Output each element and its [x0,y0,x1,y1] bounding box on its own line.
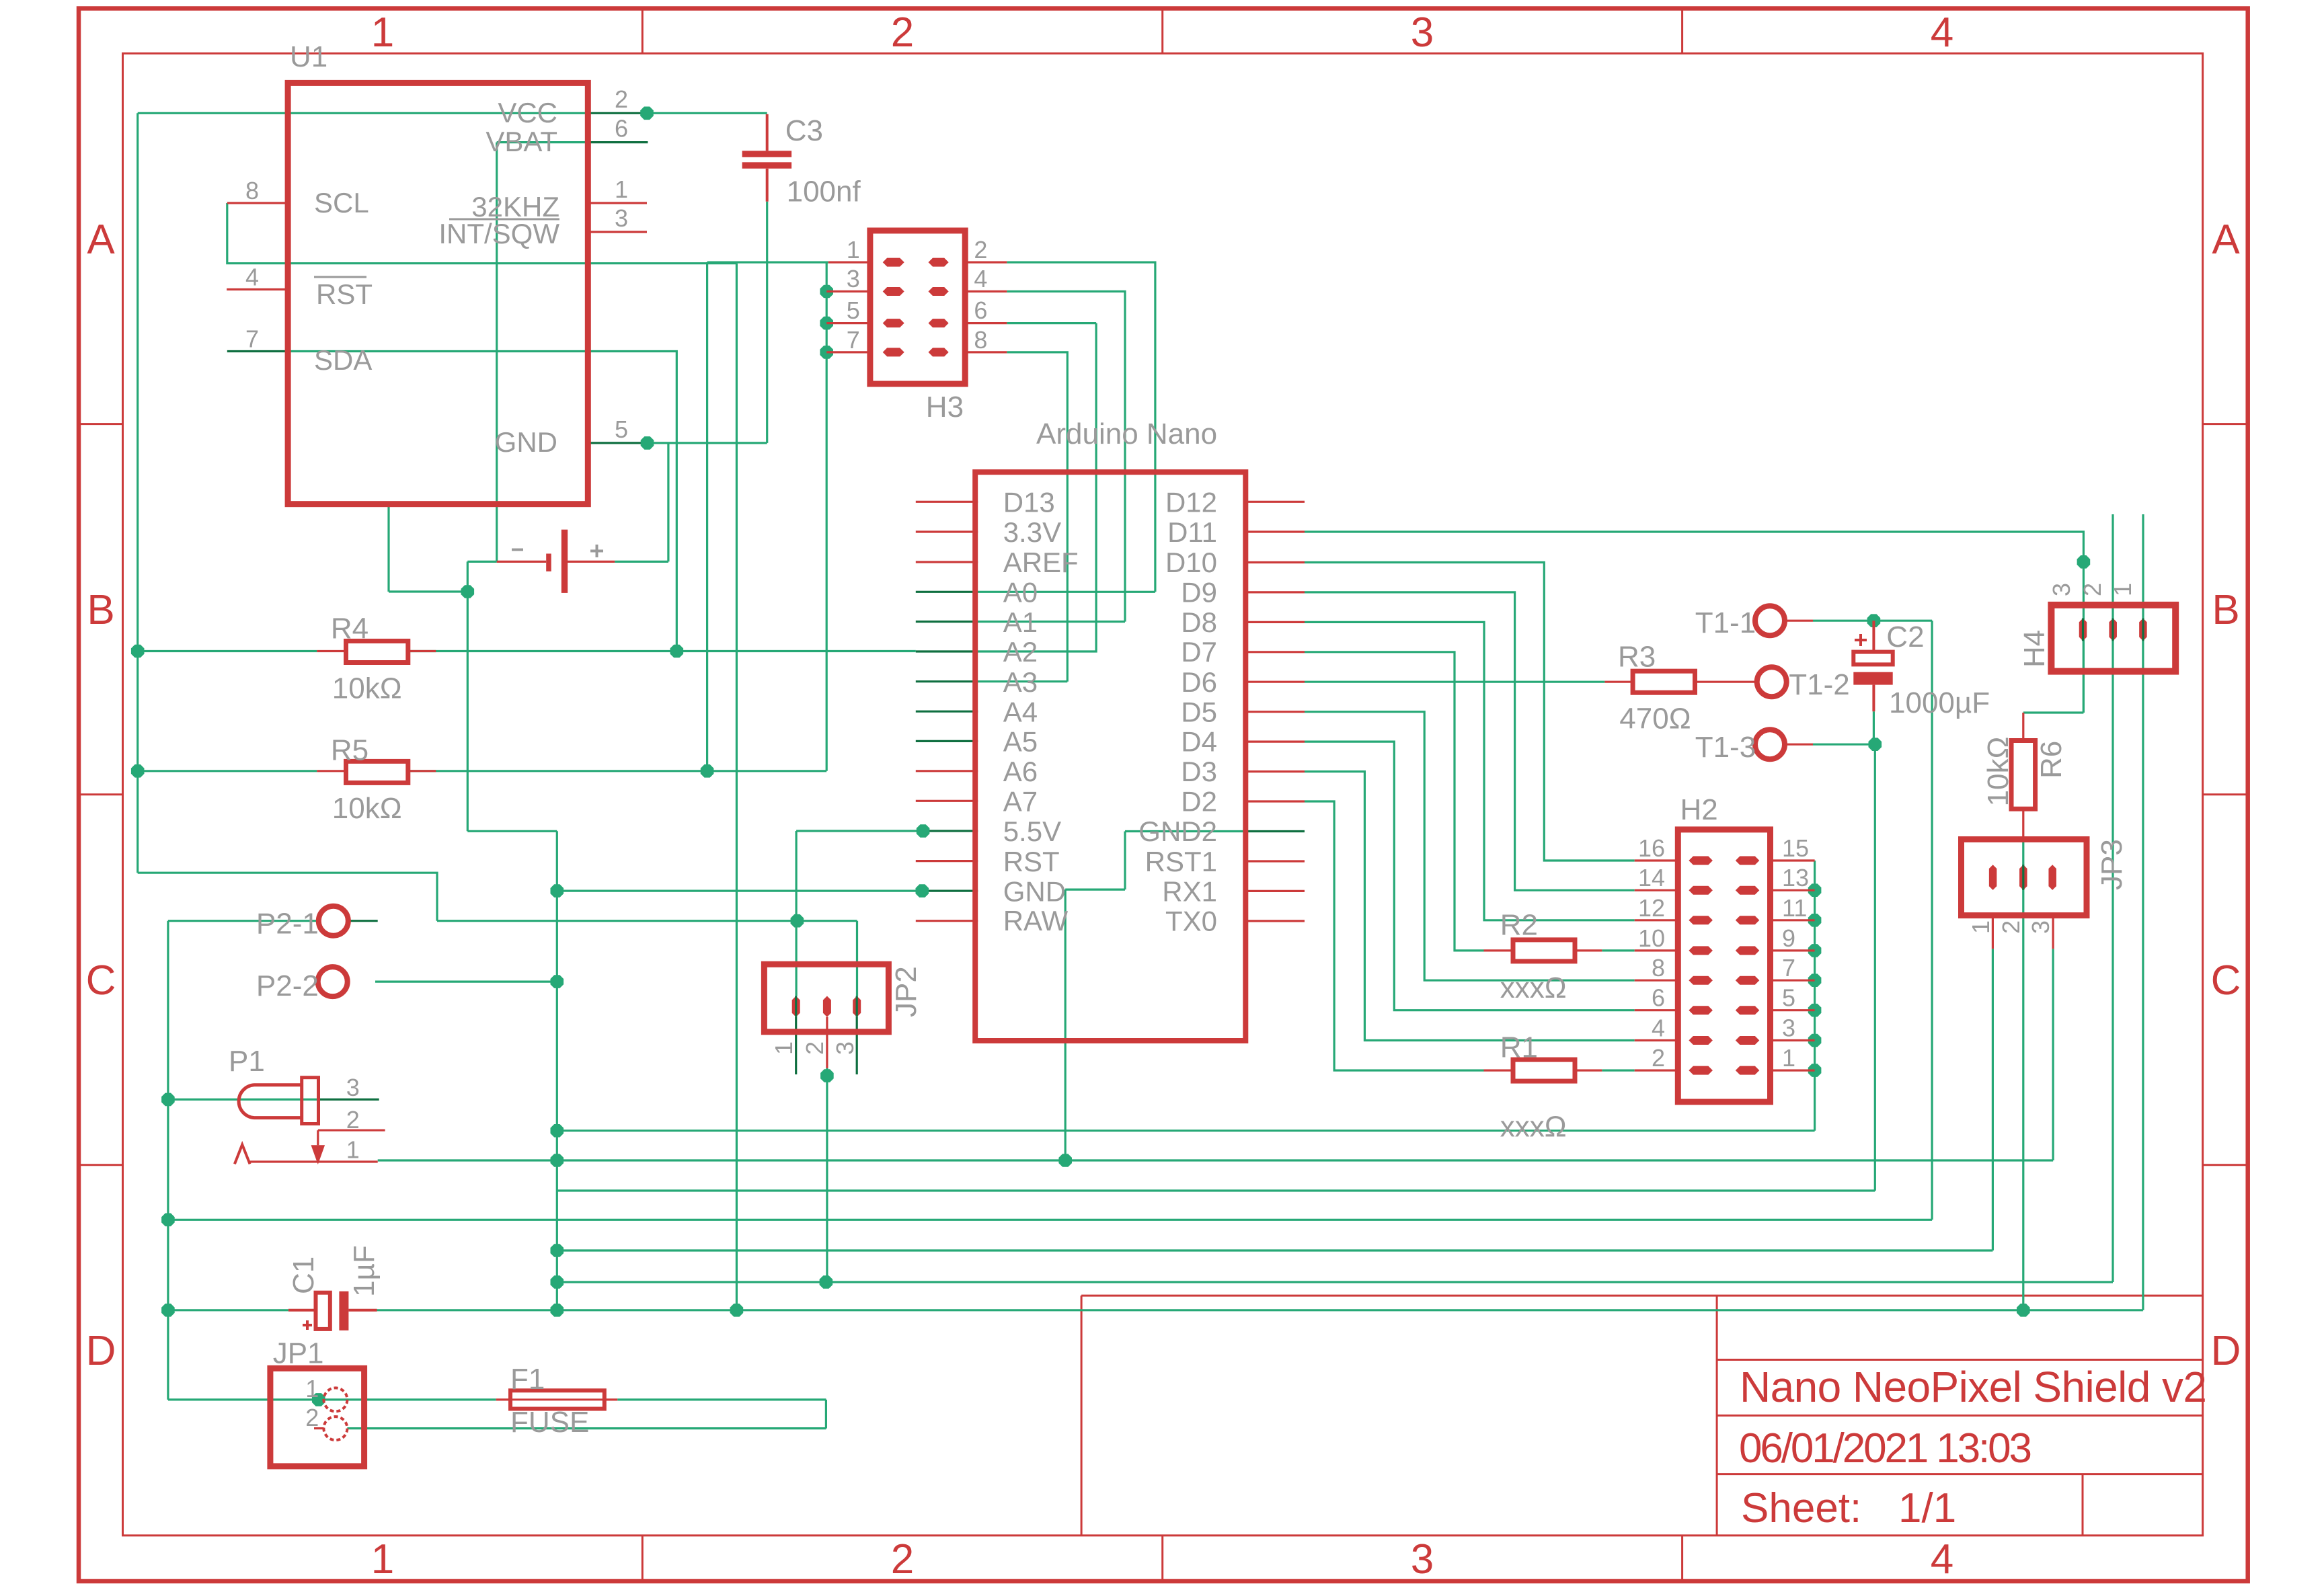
svg-text:TX0: TX0 [1165,906,1217,937]
junction GND rail at Nano GND row [551,884,564,898]
junction SCL riser at C1 row [730,1304,744,1317]
svg-text:3: 3 [1411,9,1434,56]
pin stub H2 pin5 [1771,1009,1815,1011]
junction GND rail y1860 [551,1244,564,1257]
junction H2 pin9 [1808,944,1822,957]
junction H2 pin5 [1808,1004,1822,1017]
pin stub Nano D3 [1245,770,1305,772]
pin stub H2 pin16 [1635,859,1678,861]
svg-text:15: 15 [1782,834,1809,862]
svg-text:100nf: 100nf [787,175,861,208]
junction SDA at A2 row [670,645,684,658]
svg-text:JP3: JP3 [2095,839,2128,890]
wire bus y1766 [557,1189,1875,1191]
svg-text:2: 2 [891,9,914,56]
pin stub Nano D9 [1245,591,1305,593]
junction H2 pin11 [1808,914,1822,927]
svg-text:1: 1 [2109,583,2136,596]
wire bus y1678 [557,1129,1814,1131]
junction U1 VCC pin2 [640,107,654,120]
svg-text:6: 6 [1652,984,1665,1012]
wire R5 row left [138,770,317,772]
wire D4 to H2 pin6 [1305,742,1635,1010]
pin stub Nano D6 [1245,681,1305,683]
pin stub Nano D13 [916,501,978,503]
svg-text:FUSE: FUSE [510,1406,589,1439]
svg-text:1000µF: 1000µF [1889,686,1990,719]
pin stub Nano A4 [916,711,978,713]
pin stub Nano D11 [1245,530,1305,532]
junction left rail P1 pin3 [161,1093,175,1107]
wire P1 pin3 row [168,1099,318,1101]
svg-text:470Ω: 470Ω [1619,703,1691,735]
pin stub H2 pin14 [1635,889,1678,891]
junction GND rail end C1 row [551,1304,564,1317]
wire battery plus riser [615,443,668,562]
svg-text:10kΩ: 10kΩ [332,672,402,705]
wire H3 pin2 to A0 [978,262,1155,592]
svg-text:VCC: VCC [498,97,557,128]
wire C1 row left [168,1309,288,1311]
pin stub Nano D7 [1245,651,1305,653]
pin stub U1 VBAT [588,141,648,143]
svg-text:06/01/2021 13:03: 06/01/2021 13:03 [1739,1425,2032,1472]
wire T1-1 row [1813,620,1932,622]
svg-text:1: 1 [1967,920,1994,934]
svg-text:1: 1 [847,236,860,264]
junction Nano 5.5V [917,824,930,838]
svg-text:1µF: 1µF [348,1245,381,1297]
junction U1 GND pin5 [641,436,654,450]
wire R6 bottom to JP3 pin2 [2022,840,2024,1310]
wire over H4 pad3 [2082,619,2084,641]
svg-text:RX1: RX1 [1162,875,1217,907]
svg-text:RST: RST [1003,846,1060,877]
pin stub Nano D2 [1245,800,1305,802]
svg-text:H3: H3 [926,391,964,424]
wire over H4 pad1 [2142,619,2144,641]
svg-text:1: 1 [305,1375,319,1402]
junction GND2b riser at y1728 [1058,1154,1072,1167]
junction GND rail at P2-2 [551,975,564,988]
column divider 2/3 bottom [1161,1536,1163,1581]
wire bus y1814 [168,1219,1932,1221]
wire VBAT riser to battery minus [496,143,498,562]
resistor R4 [317,612,436,705]
svg-text:D: D [2211,1328,2241,1374]
svg-text:GND: GND [495,426,557,458]
svg-text:P2-1: P2-1 [256,908,319,941]
junction H2 pin3 [1808,1034,1822,1047]
pin stub JP1 pin2 left [314,1427,323,1429]
svg-text:R6: R6 [2035,741,2068,779]
svg-text:A5: A5 [1003,726,1038,758]
pin stub H2 pin8 [1635,980,1678,982]
title block sheet cell divider [2082,1474,2084,1536]
svg-text:5.5V: 5.5V [1003,815,1061,847]
svg-text:3: 3 [2027,920,2054,934]
svg-text:6: 6 [615,115,628,143]
svg-text:C3: C3 [785,114,823,147]
pin stub Nano RX1 [1245,890,1305,892]
pin stub P1 pin3 [318,1099,379,1101]
svg-text:A3: A3 [1003,666,1038,698]
svg-text:2: 2 [974,236,987,264]
wire JP1 pin1 row [168,1398,496,1400]
wire over JP3 pad2 [2022,865,2024,890]
wire SCL loop [227,203,737,264]
resistor R5 [317,734,436,826]
pin stub H3 pin7 [826,351,870,353]
wire 5.5V to JP2 pin1 [795,831,797,996]
junction H3 pin5 [820,317,833,330]
svg-text:13: 13 [1782,864,1809,891]
svg-text:RST: RST [316,278,373,310]
pin stub H3 pin2 [965,262,1007,264]
svg-text:2: 2 [1997,920,2025,934]
svg-text:6: 6 [974,296,987,324]
svg-text:A: A [2212,216,2240,263]
header H2 [1638,793,1809,1102]
wire T1-3 riser down [1874,744,1876,1191]
wire H3 pins 1357 rail [826,262,828,771]
wire R6 top to H4 pin3 [2023,639,2084,713]
svg-text:10kΩ: 10kΩ [332,792,402,825]
svg-text:D6: D6 [1181,666,1217,698]
capacitor C2 [1853,621,1990,719]
svg-text:A4: A4 [1003,696,1038,727]
svg-text:R2: R2 [1500,908,1538,941]
svg-text:3: 3 [346,1074,360,1101]
junction JP2 pin2 net [820,1069,834,1082]
wire VCC rail bottom elbow [138,873,437,921]
svg-text:4: 4 [245,264,259,291]
svg-text:10: 10 [1638,924,1665,952]
svg-text:D: D [86,1328,116,1374]
column divider 3/4 top [1681,9,1683,54]
pin stub H3 pin6 [965,322,1007,324]
pin stub Nano TX0 [1245,920,1305,922]
svg-text:14: 14 [1638,864,1665,891]
wire H3 pin1 row [707,262,828,264]
wire R5 row right [408,770,826,772]
wire C1 row right rail [377,1309,2143,1311]
svg-text:3.3V: 3.3V [1003,516,1061,548]
pin stub U1 RST [227,288,288,290]
wire R4 row right to A2 [408,650,916,652]
pin stub U1 32KHZ [588,202,647,204]
svg-text:GND: GND [1003,875,1066,907]
svg-text:SCL: SCL [314,187,369,218]
pin stub H2 pin4 [1635,1039,1678,1041]
pin stub H3 pin1 [828,262,870,264]
junction left rail C1 row [161,1304,175,1317]
wire F1 to JP1 pin2 U-turn [347,1400,826,1429]
svg-text:D11: D11 [1167,516,1217,548]
pin stub U1 INT/SQW [588,231,647,233]
wire GND2 interior [1125,830,1245,832]
svg-text:AREF: AREF [1003,547,1079,578]
wire JP2 pin2 down [826,1068,828,1282]
capacitor C3 [742,114,861,208]
pin stub H2 pin13 [1771,889,1815,891]
pin stub JP2 pin2 [826,1017,828,1068]
title block divider row1 [1717,1359,2203,1361]
connector JP2 [764,964,923,1055]
title block divider row2 [1717,1415,2203,1417]
svg-text:A7: A7 [1003,786,1038,818]
svg-text:4: 4 [1931,9,1953,56]
svg-text:D13: D13 [1003,487,1055,518]
wire D5 to H2 pin8 [1305,712,1635,981]
svg-text:R1: R1 [1500,1031,1538,1064]
wire T1-3 row [1813,744,1875,746]
pin stub JP2 pin3 [856,1017,858,1074]
svg-text:8: 8 [974,326,987,354]
pin stub Nano RST [916,860,978,862]
wire H3 left rail riser [706,262,708,771]
svg-text:U1: U1 [290,40,327,73]
pin stub H3 pin8 [965,351,1007,353]
wire D7 to R2 [1305,652,1484,951]
junction C2 minus [1869,738,1882,751]
svg-text:T1-3: T1-3 [1695,731,1756,764]
svg-text:R5: R5 [331,734,369,767]
pin stub H2 pin7 [1771,980,1815,982]
pin stub U1 SCL [227,202,288,204]
pin stub Nano D5 [1245,711,1305,713]
pin stub H2 pin3 [1771,1039,1815,1041]
row divider B/C right [2203,793,2248,795]
svg-text:A: A [87,216,115,263]
wire bus y1728 P1 to JP3 pin3 [378,1159,2053,1161]
junction RAW row [791,914,804,928]
wire D3 to H2 pin4 [1305,772,1635,1041]
svg-text:VBAT: VBAT [486,126,557,157]
pin stub U1 SDA [227,350,288,352]
row divider A/B left [79,423,123,425]
wire over JP2 pad3 [856,996,858,1017]
svg-text:8: 8 [245,177,259,204]
title block divider row3 [1717,1473,2203,1475]
junction H2 pin7 [1808,973,1822,987]
pin stub Nano D8 [1245,621,1305,623]
resistor R1 [1484,1031,1602,1144]
svg-text:Arduino Nano: Arduino Nano [1036,417,1217,450]
wire F1 out [617,1398,826,1400]
junction battery minus node [461,585,475,598]
pin stub Nano GND [922,889,978,891]
svg-text:D5: D5 [1181,696,1217,727]
wire H2 right rail [1814,861,1816,1131]
svg-text:1: 1 [346,1136,360,1164]
row divider A/B right [2203,423,2248,425]
pin stub H2 pin15 [1771,859,1815,861]
svg-text:5: 5 [615,415,628,443]
pin stub H2 pin10 [1635,949,1678,951]
svg-text:1: 1 [371,9,394,56]
pin stub U1 VCC [588,112,647,114]
wire H3 pin6 stub [1007,322,1096,324]
pin stub H2 pin11 [1771,919,1815,921]
pin stub Nano 3.3V [916,530,978,532]
wire D11 to H4 pin3 [1305,532,2083,713]
pin stub H2 pin12 [1635,919,1678,921]
pin stub Nano GND2 [1245,830,1305,832]
wire VCC junction to C3 [647,112,767,114]
svg-text:A1: A1 [1003,606,1038,638]
junction H3 pin7 [820,346,833,359]
svg-text:D4: D4 [1181,726,1217,758]
svg-text:D12: D12 [1165,487,1217,518]
svg-text:D3: D3 [1181,756,1217,787]
wire A2 to H3 pin6 [978,323,1096,651]
svg-text:2: 2 [346,1106,360,1133]
wire RAW row [437,920,857,922]
row divider C/D right [2203,1164,2248,1166]
svg-text:2: 2 [2079,583,2106,596]
svg-text:P1: P1 [229,1045,265,1078]
pin stub Nano AREF [916,561,978,563]
wire H3 pin4 to A1 [978,292,1125,622]
pin stub U1 GND [588,442,647,444]
wire VCC left rail vertical [137,113,139,873]
IC Arduino Nano [975,417,1245,1041]
svg-text:16: 16 [1638,834,1665,862]
wire RAW to JP2 pin3 [856,921,858,996]
resistor R6 [1982,713,2068,840]
svg-text:JP1: JP1 [273,1337,324,1370]
pin stub H2 pin9 [1771,949,1815,951]
pin stub Nano D4 [1245,740,1305,742]
wire over H4 pad2 [2112,619,2114,641]
svg-text:4: 4 [974,265,987,292]
wire H4 pin1 riser [2142,639,2144,1310]
wire D6 to R3 [1305,681,1604,683]
svg-text:RST1: RST1 [1145,846,1217,877]
wire T1-1 riser down [1931,621,1933,1220]
svg-text:1: 1 [770,1041,798,1055]
svg-text:C: C [86,957,116,1004]
svg-text:RAW: RAW [1003,905,1069,937]
svg-text:3: 3 [615,204,628,232]
pin stub Nano D12 [1245,501,1305,503]
svg-text:12: 12 [1638,894,1665,922]
svg-text:D2: D2 [1181,786,1217,818]
svg-text:D8: D8 [1181,606,1217,638]
svg-text:2: 2 [801,1041,828,1055]
pin stub Nano A2 [916,650,978,652]
title block outline [1081,1296,2203,1536]
pin stub Nano A7 [916,800,978,802]
svg-text:C1: C1 [287,1257,320,1294]
wire SCL riser down [736,264,738,1310]
svg-text:7: 7 [245,325,259,353]
pin stub H3 pin4 [965,290,1007,292]
wire U1 GND to C3 bottom riser [648,202,767,443]
connector JP3 [1962,839,2129,934]
svg-text:GND2: GND2 [1138,815,1217,847]
svg-text:7: 7 [1782,954,1795,982]
svg-text:xxxΩ: xxxΩ [1500,1110,1567,1143]
svg-text:H2: H2 [1680,793,1718,826]
junction C2 plus [1867,614,1881,627]
wire JP3 pin3 riser [2052,949,2054,1160]
svg-text:3: 3 [2048,583,2075,596]
column divider 1/2 top [642,9,644,54]
title block vertical divider [1716,1296,1718,1536]
junction JP1 pin1 [312,1393,325,1406]
svg-text:2: 2 [305,1404,319,1431]
junction H4 pin3 [2077,555,2091,569]
pin stub Nano RAW [916,920,978,922]
pin stub JP3 pin3 [2052,916,2054,949]
svg-text:3: 3 [1782,1014,1795,1042]
wire 5.5V row [796,830,923,832]
svg-text:8: 8 [1652,954,1665,982]
wire H4 pin2 top stub [2112,514,2114,619]
svg-text:1: 1 [615,175,628,203]
pin stub H3 pin5 [826,322,870,324]
wire GND2b riser [1064,889,1067,1160]
test pad T1-1 [1695,606,1813,639]
pad P2-2 [256,967,348,1002]
battery B1 [497,530,615,593]
svg-text:T1-2: T1-2 [1789,668,1849,701]
header H3 [847,231,988,424]
pin stub H2 pin6 [1635,1009,1678,1011]
svg-text:A0: A0 [1003,577,1038,608]
wire over JP2 pad1 [795,996,797,1017]
svg-text:1: 1 [371,1536,394,1583]
svg-text:3: 3 [1411,1536,1434,1583]
svg-text:5: 5 [847,296,860,324]
svg-text:xxxΩ: xxxΩ [1500,971,1567,1004]
pin stub JP2 pin1 [795,1017,797,1074]
column divider 2/3 top [1161,9,1163,54]
svg-text:4: 4 [1931,1536,1953,1583]
svg-text:1: 1 [1782,1044,1795,1072]
svg-text:P2-2: P2-2 [256,969,319,1002]
svg-text:R3: R3 [1618,640,1656,673]
pin stub Nano A3 [916,680,978,682]
svg-text:2: 2 [615,85,628,113]
wire D9 to H2 pin14 [1305,592,1635,890]
svg-text:JP2: JP2 [890,966,923,1017]
svg-text:A2: A2 [1003,636,1038,668]
wire GND rail mid vertical [467,592,557,1310]
wire bus y1895 to H4 pin2 [557,639,2113,1282]
wire battery minus elbow [389,504,497,592]
svg-text:3: 3 [831,1041,859,1055]
svg-text:D10: D10 [1165,547,1217,578]
pin stub H2 pin1 [1771,1069,1815,1071]
pin stub Nano RST1 [1245,860,1305,862]
junction GND rail y1728 [551,1154,564,1167]
junction GND rail y1678 [551,1124,564,1138]
junction Nano GND [916,884,929,898]
svg-text:H4: H4 [2018,630,2051,668]
svg-text:INT/SQW: INT/SQW [438,218,559,249]
junction H2 pin1 [1808,1064,1822,1077]
fuse F1 [496,1363,618,1439]
wire D8 to H2 pin12 [1305,622,1635,920]
svg-text:5: 5 [1782,984,1795,1012]
junction H2 pin13 [1808,883,1822,897]
pin stub P2-1 [349,920,378,922]
pin stub Nano A1 [916,621,978,623]
svg-text:F1: F1 [510,1363,545,1396]
